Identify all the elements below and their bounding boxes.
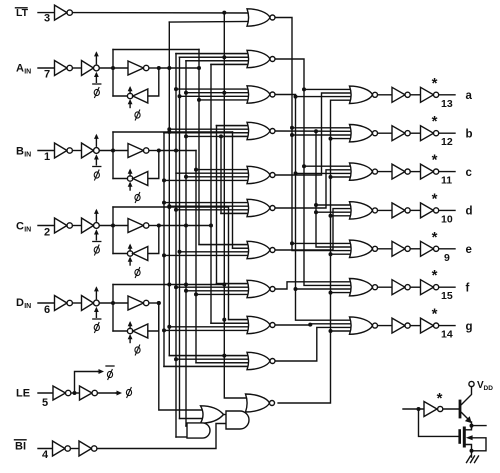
svg-text:3: 3 (44, 13, 50, 25)
svg-text:13: 13 (441, 98, 453, 110)
svg-text:c: c (466, 167, 473, 179)
svg-text:*: * (432, 113, 438, 130)
svg-text:IN: IN (24, 303, 31, 310)
svg-text:*: * (437, 390, 443, 407)
svg-text:*: * (432, 267, 438, 284)
svg-text:4: 4 (42, 449, 49, 461)
svg-text:e: e (466, 244, 472, 256)
svg-text:f: f (466, 282, 470, 294)
svg-text:1: 1 (44, 151, 50, 163)
svg-text:15: 15 (441, 290, 453, 302)
svg-text:*: * (432, 306, 438, 323)
svg-text:6: 6 (44, 304, 50, 316)
svg-text:BI: BI (15, 441, 26, 453)
svg-text:A: A (16, 63, 24, 75)
svg-text:a: a (466, 90, 473, 102)
svg-text:*: * (432, 75, 438, 92)
svg-text:12: 12 (441, 136, 453, 148)
svg-text:11: 11 (441, 175, 452, 187)
svg-text:IN: IN (24, 227, 31, 234)
svg-text:D: D (16, 297, 24, 309)
svg-text:g: g (466, 321, 473, 333)
svg-text:2: 2 (44, 227, 50, 239)
svg-text:LE: LE (16, 388, 30, 400)
svg-text:9: 9 (444, 252, 450, 264)
svg-text:IN: IN (24, 69, 31, 76)
svg-text:C: C (16, 221, 24, 233)
svg-text:*: * (432, 152, 438, 169)
svg-text:*: * (432, 229, 438, 246)
svg-text:d: d (466, 206, 473, 218)
svg-text:IN: IN (24, 152, 31, 159)
svg-text:*: * (432, 190, 438, 207)
svg-text:7: 7 (44, 69, 50, 81)
svg-text:5: 5 (42, 397, 48, 409)
svg-text:DD: DD (484, 385, 494, 392)
svg-text:10: 10 (441, 213, 453, 225)
svg-text:b: b (466, 128, 473, 140)
svg-text:14: 14 (441, 329, 453, 341)
svg-text:LT: LT (16, 7, 29, 19)
svg-text:B: B (16, 146, 24, 158)
